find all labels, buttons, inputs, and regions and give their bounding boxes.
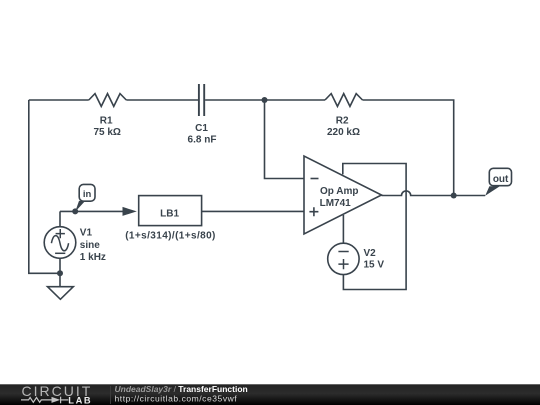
svg-text:LM741: LM741 [320, 198, 352, 209]
svg-text:http://circuitlab.com/ce35vwf: http://circuitlab.com/ce35vwf [115, 394, 238, 404]
svg-text:15 V: 15 V [364, 259, 385, 270]
wire V1 bottom stub to ground [59, 258, 61, 286]
wire V1 top stub [59, 211, 61, 226]
footer bar [0, 384, 540, 405]
svg-text:6.8 nF: 6.8 nF [188, 135, 217, 146]
node flag out [485, 186, 500, 196]
wire in node to LB1 [60, 210, 124, 212]
voltage source V1 (sine) [44, 227, 76, 259]
wire inverting input branch [265, 100, 305, 179]
svg-text:R1: R1 [100, 115, 113, 126]
svg-text:75 kΩ: 75 kΩ [93, 127, 120, 138]
svg-text:(1+s/314)/(1+s/80): (1+s/314)/(1+s/80) [125, 230, 216, 241]
node junction dot in [72, 208, 78, 214]
wire left rail [29, 100, 60, 273]
svg-text:out: out [493, 174, 509, 185]
svg-text:220 kΩ: 220 kΩ [327, 127, 360, 138]
footer logo wire-resistor-diode glyph [21, 397, 68, 404]
ground symbol [48, 287, 74, 300]
svg-text:V2: V2 [364, 248, 377, 259]
node junction dot ground [57, 270, 63, 276]
svg-text:R2: R2 [336, 115, 349, 126]
node junction dot output [451, 193, 457, 199]
svg-text:LB1: LB1 [160, 209, 179, 220]
svg-text:V1: V1 [80, 228, 93, 239]
node junction dot C1-R2 [262, 97, 268, 103]
wire R2 to right corner down to output node [363, 100, 454, 196]
svg-text:Op Amp: Op Amp [320, 186, 359, 197]
op-amp U1 triangle [304, 156, 382, 234]
op-amp plus input sign [309, 207, 318, 216]
svg-text:1 kHz: 1 kHz [80, 252, 106, 263]
capacitor C1 [199, 84, 204, 116]
wire op-amp output with hop [382, 191, 486, 196]
wire top rail left (top-left corner to R1) [29, 99, 89, 101]
resistor R1 [89, 94, 127, 107]
wire R1 to C1 [126, 99, 198, 101]
wire LB1 to op-amp plus input [202, 210, 304, 212]
block LB1 [139, 196, 202, 226]
footer divider [110, 386, 112, 404]
svg-text:in: in [83, 189, 92, 200]
resistor R2 [325, 94, 363, 107]
op-amp minus input sign [311, 178, 319, 180]
svg-text:UndeadSlay3r / TransferFunctio: UndeadSlay3r / TransferFunction [115, 384, 248, 394]
block LB1 input arrow [123, 207, 137, 216]
svg-text:LAB: LAB [68, 395, 92, 405]
wire op-amp supply loop [343, 164, 406, 290]
wire C1 to R2 [205, 99, 325, 101]
svg-text:C1: C1 [195, 123, 208, 134]
voltage source V2 [328, 243, 359, 274]
node flag in [75, 201, 85, 212]
svg-text:sine: sine [80, 240, 100, 251]
wire V2 top stub [342, 215, 344, 243]
